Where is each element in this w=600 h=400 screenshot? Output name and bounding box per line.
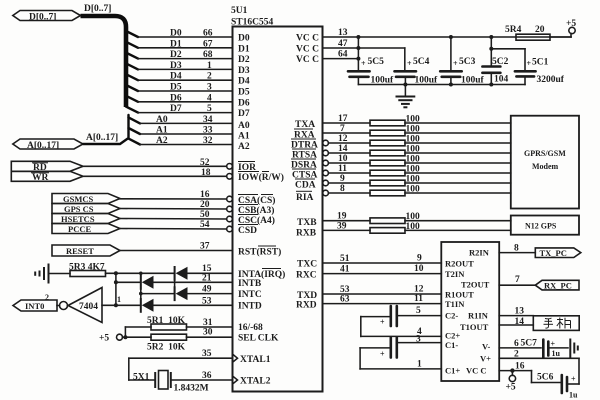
wire DTRA pin 12 + resistor 100 xyxy=(323,134,511,146)
wire 5C3 top xyxy=(450,37,452,70)
svg-text:1u: 1u xyxy=(569,391,578,400)
IC U1 right pin labels xyxy=(291,34,319,311)
wire A2 pin 32 xyxy=(129,136,233,146)
IC U1 XTAL pin arrowheads xyxy=(233,355,238,384)
svg-text:20: 20 xyxy=(535,25,545,35)
capacitor 5C4 100uf xyxy=(395,57,439,86)
svg-text:66: 66 xyxy=(203,29,213,39)
svg-text:5R3 4K7: 5R3 4K7 xyxy=(69,263,105,273)
svg-text:CDA: CDA xyxy=(295,181,316,191)
wire C1- pin 3 xyxy=(398,334,441,344)
wire D2 pin 68 xyxy=(126,50,233,60)
svg-text:100uf: 100uf xyxy=(415,76,439,86)
block handset (shou-bing) xyxy=(533,316,579,331)
wire R1IN pin 13 xyxy=(499,306,533,316)
svg-text:14: 14 xyxy=(515,317,525,327)
svg-text:100: 100 xyxy=(406,125,421,135)
svg-text:16: 16 xyxy=(515,362,525,372)
svg-text:A[0..17]: A[0..17] xyxy=(27,141,59,151)
svg-text:10: 10 xyxy=(338,154,348,164)
svg-text:+: + xyxy=(380,350,385,359)
svg-text:IOW(R/W): IOW(R/W) xyxy=(238,172,284,183)
svg-text:1: 1 xyxy=(417,360,422,370)
ground (below 5C4) xyxy=(397,85,415,108)
svg-text:51: 51 xyxy=(340,254,350,264)
svg-text:49: 49 xyxy=(202,285,212,295)
capacitor 5C1 3200uf xyxy=(515,58,565,86)
svg-text:D[0..7]: D[0..7] xyxy=(29,13,56,23)
wire D bus thick xyxy=(81,16,127,107)
node D[0..7] bus entry arrow xyxy=(13,11,81,23)
svg-text:67: 67 xyxy=(203,39,213,49)
svg-text:5X1: 5X1 xyxy=(133,373,150,383)
svg-text:RXC: RXC xyxy=(296,271,317,281)
capacitor 5C3 100uf xyxy=(440,57,484,86)
svg-text:VC C: VC C xyxy=(296,44,319,54)
svg-text:INTC: INTC xyxy=(238,290,262,300)
svg-text:VC C: VC C xyxy=(466,365,487,375)
wire WR to IOW pin 18 xyxy=(83,168,232,179)
svg-text:SEL CLK: SEL CLK xyxy=(238,334,279,344)
svg-text:21: 21 xyxy=(202,273,212,283)
svg-text:39: 39 xyxy=(337,221,347,231)
svg-text:+: + xyxy=(407,59,412,68)
svg-text:100: 100 xyxy=(406,165,421,175)
wire XTAL2 pin 36 xyxy=(171,371,233,381)
svg-text:1u: 1u xyxy=(552,349,561,358)
wire D5 pin 3 xyxy=(126,83,233,93)
svg-text:4: 4 xyxy=(207,93,212,103)
svg-text:14: 14 xyxy=(338,144,348,154)
svg-text:6: 6 xyxy=(514,339,519,349)
resistor 5R2 10K xyxy=(147,334,187,352)
svg-text:N12 GPS: N12 GPS xyxy=(525,222,557,231)
svg-text:16: 16 xyxy=(200,190,210,200)
svg-text:12: 12 xyxy=(414,285,424,295)
node RESET input arrow xyxy=(52,245,120,256)
svg-text:RXB: RXB xyxy=(296,229,317,239)
svg-text:2: 2 xyxy=(45,293,49,302)
wire T2OUT pin 7 xyxy=(499,275,535,285)
wire INTD row pin 53 xyxy=(102,295,233,306)
svg-text:T1IN: T1IN xyxy=(445,299,465,309)
wire pullup vertical junction xyxy=(114,271,118,307)
svg-text:5R4: 5R4 xyxy=(505,25,522,35)
svg-text:7: 7 xyxy=(515,275,520,285)
svg-text:1: 1 xyxy=(207,61,212,71)
svg-text:100: 100 xyxy=(406,155,421,165)
svg-text:2: 2 xyxy=(514,350,519,360)
wire RD to IOR pin 52 xyxy=(83,158,232,169)
svg-text:D2: D2 xyxy=(170,50,182,60)
svg-text:XTAL2: XTAL2 xyxy=(240,377,271,387)
svg-text:R1IN: R1IN xyxy=(468,311,489,321)
svg-text:20: 20 xyxy=(200,200,210,210)
svg-text:3: 3 xyxy=(416,334,421,344)
wire RXC 41 to T2IN 10 xyxy=(323,264,442,275)
svg-text:D5: D5 xyxy=(238,88,250,98)
resistor 5R4 20 xyxy=(505,25,550,40)
resistor 5R3 4K7 xyxy=(69,263,106,277)
svg-text:100: 100 xyxy=(406,115,421,125)
node GSMCS input arrow xyxy=(52,194,120,204)
svg-text:64: 64 xyxy=(338,50,348,60)
svg-text:D6: D6 xyxy=(238,98,250,108)
wire RTSA pin 14 + resistor 100 xyxy=(323,144,511,156)
wire VCC vertical to 5C5 xyxy=(357,37,359,70)
svg-text:2: 2 xyxy=(207,72,212,82)
svg-text:A0: A0 xyxy=(238,121,250,131)
svg-text:5C3: 5C3 xyxy=(459,57,476,67)
ground (sideways, right of 5C7) xyxy=(570,340,578,357)
resistor 5R1 10K xyxy=(147,316,187,330)
svg-text:9: 9 xyxy=(417,254,422,264)
svg-text:1.8432M: 1.8432M xyxy=(174,384,209,394)
svg-text:32: 32 xyxy=(203,136,213,146)
svg-text:D3: D3 xyxy=(170,61,182,71)
node WR input arrow xyxy=(11,171,83,183)
svg-text:R2OUT: R2OUT xyxy=(445,258,474,268)
svg-text:RIA: RIA xyxy=(296,193,314,203)
svg-text:100: 100 xyxy=(406,145,421,155)
diode D4 (column2 on INTC) xyxy=(175,287,188,300)
svg-text:50: 50 xyxy=(200,210,210,220)
svg-text:GSMCS: GSMCS xyxy=(63,194,94,204)
wire D0 pin 66 xyxy=(126,29,233,39)
svg-text:V+: V+ xyxy=(480,354,491,364)
svg-text:11: 11 xyxy=(338,164,347,174)
svg-text:5C1: 5C1 xyxy=(532,58,549,68)
wire HSETCS to CSC pin 50 xyxy=(120,210,232,222)
capacitor 5C6 1u xyxy=(537,373,578,400)
wire V+ pin 2 to 5C6 xyxy=(499,350,579,385)
svg-text:100: 100 xyxy=(406,135,421,145)
svg-text:A1: A1 xyxy=(156,126,168,136)
svg-text:100: 100 xyxy=(406,185,421,195)
+5 supply circle (MAX232) xyxy=(506,371,516,393)
svg-text:D5: D5 xyxy=(170,83,182,93)
svg-text:68: 68 xyxy=(203,50,213,60)
svg-text:D[0..7]: D[0..7] xyxy=(84,4,111,14)
wire D3 pin 1 xyxy=(126,61,233,71)
svg-text:37: 37 xyxy=(200,242,210,252)
svg-text:13: 13 xyxy=(338,28,348,38)
svg-text:V-: V- xyxy=(482,341,491,351)
wire 5C4 top xyxy=(404,48,406,70)
capacitor C2 (5C8) between pin5/pin4 xyxy=(361,306,442,337)
svg-text:A0: A0 xyxy=(156,115,168,125)
svg-text:33: 33 xyxy=(203,126,213,136)
wire VCC pin 16 xyxy=(499,362,560,383)
svg-text:VC C: VC C xyxy=(296,34,319,44)
svg-text:12: 12 xyxy=(338,134,348,144)
wire D4 pin 2 xyxy=(126,72,233,82)
IC U1 body xyxy=(233,27,323,392)
svg-text:VC C: VC C xyxy=(296,55,319,65)
svg-text:53: 53 xyxy=(340,285,350,295)
capacitor 5C2 104 xyxy=(482,57,508,85)
svg-text:5C5: 5C5 xyxy=(368,57,385,67)
node RD input arrow xyxy=(11,161,83,173)
svg-text:T2IN: T2IN xyxy=(445,269,465,279)
wire RXD 63 to T1IN 11 xyxy=(323,294,442,305)
wire RESET to RST pin 37 xyxy=(120,242,233,252)
wire VCC pin 64 xyxy=(323,50,361,61)
svg-text:TXB: TXB xyxy=(297,218,317,228)
svg-text:31: 31 xyxy=(203,318,213,328)
svg-text:+: + xyxy=(380,318,385,327)
wire diode column2 vertical xyxy=(174,273,176,293)
capacitor C1 (5C9) between pin3/pin1 xyxy=(360,338,441,370)
svg-text:17: 17 xyxy=(338,114,348,124)
svg-text:INT0: INT0 xyxy=(25,301,44,311)
svg-text:+5: +5 xyxy=(99,334,109,344)
svg-text:C1-: C1- xyxy=(445,340,458,350)
svg-text:D6: D6 xyxy=(170,93,182,103)
wire A bus xyxy=(83,115,129,144)
wire diode column1 vertical xyxy=(139,272,143,306)
svg-text:53: 53 xyxy=(202,296,212,306)
svg-text:D7: D7 xyxy=(238,109,250,119)
glyph shou xyxy=(544,318,554,328)
svg-text:A2: A2 xyxy=(156,136,168,146)
svg-text:TXD: TXD xyxy=(297,291,317,301)
svg-text:16/-68: 16/-68 xyxy=(238,323,263,333)
svg-text:C2-: C2- xyxy=(445,311,458,321)
svg-text:18: 18 xyxy=(201,168,211,178)
diode D2 (column1 on INTD) xyxy=(141,299,154,312)
node PCCE input arrow xyxy=(52,224,120,234)
wire TXD 53 to R1OUT 12 xyxy=(323,285,442,296)
wire INTC row pin 49 xyxy=(141,285,233,295)
wire RIA pin 8 + resistor 100 xyxy=(323,184,511,196)
svg-text:36: 36 xyxy=(202,371,212,381)
IC U3 pin labels xyxy=(445,247,491,375)
node HSETCS input arrow xyxy=(52,214,120,224)
wire DSRA pin 10 + resistor 100 xyxy=(323,154,511,166)
svg-text:CSD: CSD xyxy=(238,226,257,236)
svg-text:+: + xyxy=(361,59,366,68)
svg-text:52: 52 xyxy=(200,158,210,168)
node GPS CS input arrow xyxy=(52,204,120,214)
glyph bing xyxy=(557,318,571,329)
svg-text:R2IN: R2IN xyxy=(469,247,490,257)
capacitor 5C7 1u xyxy=(543,340,568,359)
svg-text:5C7: 5C7 xyxy=(521,339,538,349)
svg-text:5C2: 5C2 xyxy=(492,57,509,67)
wire INTB row pin 21 xyxy=(116,273,233,283)
block GPRS/GSM Modem xyxy=(511,116,579,209)
wire A0 pin 34 xyxy=(129,115,233,125)
IC U1 left pin labels xyxy=(238,34,285,387)
svg-text:8: 8 xyxy=(514,244,519,254)
wire D1 pin 67 xyxy=(126,39,233,49)
wire D6 pin 4 xyxy=(126,93,233,103)
wire T1OUT pin 14 xyxy=(499,317,533,327)
diode D3 (column2 on INTA) xyxy=(175,267,188,280)
svg-text:R1OUT: R1OUT xyxy=(445,289,474,299)
svg-text:RX_PC: RX_PC xyxy=(544,281,572,291)
svg-text:13: 13 xyxy=(515,306,525,316)
svg-text:+5: +5 xyxy=(566,19,576,29)
svg-text:3: 3 xyxy=(207,83,212,93)
wire 5R2 to SEL CLK pin 30 xyxy=(187,328,233,338)
svg-text:5: 5 xyxy=(416,306,421,316)
svg-text:A[0..17]: A[0..17] xyxy=(86,133,118,143)
wire VCC pin 47 xyxy=(323,39,405,50)
+5 supply circle (top right) xyxy=(550,19,576,37)
wire 5C2/5C1 branch xyxy=(489,37,525,70)
svg-text:INTB: INTB xyxy=(238,279,262,289)
svg-text:GPRS/GSM: GPRS/GSM xyxy=(524,149,566,158)
wire GPS CS to CSB pin 20 xyxy=(120,200,232,212)
IC U3 MAX232 body xyxy=(441,242,499,381)
svg-text:D3: D3 xyxy=(238,66,250,76)
svg-text:5R2 10K: 5R2 10K xyxy=(147,343,186,353)
wire C2- pin 5 xyxy=(398,306,441,316)
svg-text:D1: D1 xyxy=(238,44,250,54)
wire TXA pin 17 + resistor 100 xyxy=(323,114,511,126)
wire V- pin 6 to 5C7 xyxy=(499,339,541,350)
svg-text:11: 11 xyxy=(414,294,423,304)
svg-text:47: 47 xyxy=(338,39,348,49)
wire PCCE to CSD pin 54 xyxy=(120,220,232,232)
svg-text:9: 9 xyxy=(340,174,345,184)
svg-text:D7: D7 xyxy=(170,104,182,114)
svg-text:5C6: 5C6 xyxy=(537,373,554,383)
wire CDA pin 9 + resistor 100 xyxy=(323,174,511,186)
wire CTSA pin 11 + resistor 100 xyxy=(323,164,511,176)
svg-text:D2: D2 xyxy=(238,55,250,65)
capacitor 5C5 100uf xyxy=(348,57,394,86)
svg-text:34: 34 xyxy=(203,115,213,125)
wire INTA row pin 15 xyxy=(106,264,233,274)
wire D7 pin 5 xyxy=(126,104,233,114)
wire TXB pin 19 + resistor 100 xyxy=(323,212,511,224)
svg-text:100: 100 xyxy=(406,222,421,232)
svg-text:100uf: 100uf xyxy=(461,76,485,86)
svg-text:5R1 10K: 5R1 10K xyxy=(147,316,186,326)
svg-text:+: + xyxy=(571,375,576,384)
svg-text:100: 100 xyxy=(406,175,421,185)
node A[0..17] bus entry arrow xyxy=(13,139,83,151)
ground (sideways, left of 5R3) xyxy=(35,265,70,283)
svg-text:PCCE: PCCE xyxy=(68,224,91,234)
svg-text:C1+: C1+ xyxy=(445,365,460,375)
svg-text:19: 19 xyxy=(337,212,347,222)
svg-text:XTAL1: XTAL1 xyxy=(240,355,271,365)
node INT0 output arrow xyxy=(13,293,57,311)
diode D1 (column1 on INTB) xyxy=(141,276,154,289)
svg-text:10: 10 xyxy=(414,264,424,274)
svg-text:30: 30 xyxy=(203,328,213,338)
svg-text:41: 41 xyxy=(340,265,350,275)
wire XTAL1 pin 35 xyxy=(129,349,233,380)
svg-text:D0: D0 xyxy=(170,29,182,39)
svg-text:8: 8 xyxy=(340,184,345,194)
svg-text:1: 1 xyxy=(117,295,121,304)
svg-text:WR: WR xyxy=(32,173,49,183)
node RX_PC input arrow xyxy=(535,280,579,290)
svg-text:Modem: Modem xyxy=(532,162,559,171)
svg-text:5C4: 5C4 xyxy=(413,57,430,67)
svg-text:RXD: RXD xyxy=(296,301,317,311)
op-amp U2 7404 inverter xyxy=(57,288,102,323)
svg-text:3200uf: 3200uf xyxy=(537,75,565,85)
svg-text:D4: D4 xyxy=(238,77,250,87)
wire VCC pin 13 rail xyxy=(323,28,572,39)
svg-text:A2: A2 xyxy=(238,142,250,152)
svg-text:D0: D0 xyxy=(238,34,250,44)
svg-text:104: 104 xyxy=(494,75,509,85)
svg-text:100: 100 xyxy=(406,212,421,222)
wire R2IN pin 8 xyxy=(499,244,535,254)
wire RXA pin 7 + resistor 100 xyxy=(323,124,511,136)
svg-text:+: + xyxy=(527,59,532,68)
svg-text:TXC: TXC xyxy=(297,260,317,270)
svg-text:HSETCS: HSETCS xyxy=(61,214,95,224)
svg-text:D4: D4 xyxy=(170,72,182,82)
svg-text:GPS CS: GPS CS xyxy=(64,204,94,214)
svg-text:T2OUT: T2OUT xyxy=(461,279,490,289)
svg-text:+5: +5 xyxy=(506,383,516,393)
svg-text:7: 7 xyxy=(340,124,345,134)
svg-text:5: 5 xyxy=(207,104,212,114)
svg-text:TX_PC: TX_PC xyxy=(540,248,567,258)
svg-text:7404: 7404 xyxy=(79,302,98,312)
svg-text:A1: A1 xyxy=(238,132,250,142)
svg-text:54: 54 xyxy=(200,220,210,230)
wire decoupling ground rail xyxy=(358,83,525,87)
wire 5R1 to 16/-68 pin 31 xyxy=(187,318,233,328)
svg-text:T1OUT: T1OUT xyxy=(460,322,489,332)
wire TXC 51 to R2OUT 9 xyxy=(323,254,442,265)
svg-text:+: + xyxy=(453,59,458,68)
svg-text:D1: D1 xyxy=(170,39,182,49)
crystal 5X1 1.8432M xyxy=(133,371,209,394)
svg-text:5U1: 5U1 xyxy=(231,6,248,16)
wire A1 pin 33 xyxy=(129,126,233,136)
wire GSMCS to CSA pin 16 xyxy=(120,190,232,202)
block N12 GPS xyxy=(511,216,579,235)
svg-text:RST(RST): RST(RST) xyxy=(238,247,281,258)
node TX_PC output arrow xyxy=(535,248,581,258)
svg-text:INTD: INTD xyxy=(238,302,262,312)
+5 supply circle (pullups) xyxy=(99,327,151,344)
svg-text:35: 35 xyxy=(202,349,212,359)
svg-text:63: 63 xyxy=(340,295,350,305)
wire RXB pin 39 + resistor 100 xyxy=(323,221,511,233)
svg-text:RESET: RESET xyxy=(66,246,94,256)
